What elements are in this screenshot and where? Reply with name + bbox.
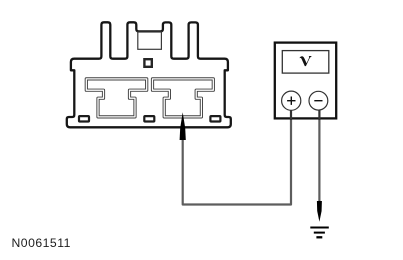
voltmeter display <box>282 51 329 74</box>
+ terminal <box>282 91 301 110</box>
lock tab right <box>210 116 220 121</box>
ground symbol bars <box>310 227 329 229</box>
wire from connector terminal to voltmeter + <box>183 118 291 205</box>
right cavity T-slot (double line) <box>153 79 214 117</box>
small square below latch <box>144 59 151 67</box>
lock tab left <box>79 116 89 121</box>
lock tab center <box>144 116 154 121</box>
voltmeter box <box>275 43 336 119</box>
wire stub from - terminal to box bottom <box>318 110 320 119</box>
- terminal <box>309 91 328 110</box>
probe arrow into connector (points up) <box>180 112 186 140</box>
V label (drawn italic-serif v) <box>300 56 312 66</box>
wire from voltmeter - to ground <box>318 118 320 203</box>
ground arrow (points down) <box>317 201 322 222</box>
figure label <box>12 236 71 250</box>
latch inner thin rectangle <box>138 32 162 49</box>
connector body outline <box>67 22 231 127</box>
wire stub from + terminal to box bottom <box>290 110 292 119</box>
left cavity T-slot (double line) <box>86 79 146 117</box>
